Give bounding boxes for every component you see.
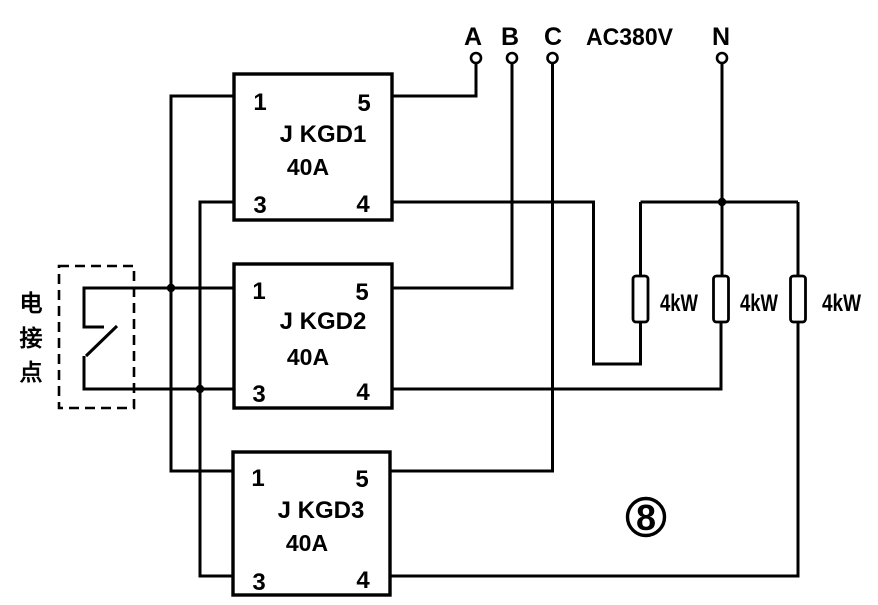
svg-text:J KGD2: J KGD2	[280, 308, 367, 335]
wire phase B: terminal B to U2 pin 5	[392, 63, 512, 288]
svg-text:AC380V: AC380V	[586, 24, 673, 51]
resistor R3 4kW	[791, 276, 862, 322]
svg-text:40A: 40A	[287, 154, 329, 180]
svg-text:4: 4	[356, 379, 370, 406]
wire phase A: terminal A to U1 pin 5	[392, 63, 476, 96]
wire neutral N: terminal N down to resistor R2 top	[721, 63, 724, 276]
terminal A circle	[471, 53, 481, 63]
svg-text:点: 点	[20, 359, 43, 385]
svg-text:40A: 40A	[287, 344, 329, 370]
svg-text:8: 8	[636, 497, 656, 538]
svg-text:电: 电	[20, 290, 43, 316]
switch S1 blade	[86, 326, 117, 356]
relay U3 JKGD3 box	[233, 452, 390, 596]
resistor R2 4kW	[714, 276, 779, 322]
svg-text:C: C	[544, 23, 562, 51]
svg-text:5: 5	[357, 90, 370, 117]
wire U3 pin 4 to R3 bottom	[390, 322, 798, 576]
relay U1 JKGD1 box	[234, 74, 392, 220]
wire net pin1: U1 pin1 / switch top / U2 pin1 / U3 pin1	[171, 96, 234, 471]
resistor R1 4kW	[633, 276, 698, 322]
figure number 8 in circle	[628, 497, 665, 538]
svg-text:J KGD1: J KGD1	[280, 121, 367, 148]
junction on switch top wire	[167, 284, 175, 292]
wire switch bottom terminal to U2 pin 3	[84, 356, 234, 389]
svg-text:3: 3	[252, 381, 265, 408]
svg-text:5: 5	[355, 466, 368, 493]
svg-text:4kW: 4kW	[822, 290, 861, 317]
svg-text:4kW: 4kW	[740, 290, 778, 317]
svg-text:1: 1	[253, 89, 266, 116]
junction on switch bottom wire	[196, 385, 204, 393]
wire U1 pin 4 to R1 bottom	[392, 202, 641, 364]
svg-text:3: 3	[253, 192, 266, 219]
svg-text:N: N	[712, 23, 730, 51]
svg-text:3: 3	[252, 569, 265, 596]
wire neutral bus over resistors	[641, 201, 799, 204]
dashed enclosure of contact	[59, 266, 134, 408]
svg-text:5: 5	[355, 279, 368, 306]
svg-text:1: 1	[251, 465, 264, 492]
wire R1 top lead	[639, 202, 642, 276]
junction N on neutral bus	[718, 198, 726, 206]
svg-text:1: 1	[252, 278, 265, 305]
svg-text:J KGD3: J KGD3	[278, 497, 365, 524]
terminal N circle	[717, 53, 727, 63]
wire switch top contact to U2 pin 1	[84, 288, 234, 327]
wire phase C: terminal C to U3 pin 5	[390, 63, 553, 471]
wire net pin3: U1 pin3 / switch bottom / U2 pin3 / U3 pin3	[200, 202, 234, 576]
wire U2 pin 4 to R2 bottom	[392, 322, 721, 389]
relay U2 JKGD2 box	[234, 264, 392, 408]
svg-text:4: 4	[356, 191, 370, 218]
svg-text:B: B	[501, 23, 519, 51]
svg-text:40A: 40A	[286, 530, 328, 556]
svg-text:4kW: 4kW	[660, 290, 698, 317]
terminal B circle	[507, 53, 517, 63]
wire R3 top lead	[797, 202, 800, 276]
svg-text:A: A	[464, 23, 482, 51]
svg-text:接: 接	[20, 325, 43, 351]
terminal C circle	[548, 53, 558, 63]
svg-text:4: 4	[356, 567, 370, 594]
